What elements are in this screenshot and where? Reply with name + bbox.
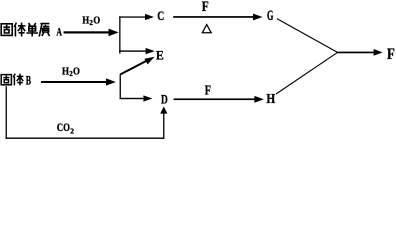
svg-text:O: O bbox=[73, 67, 80, 78]
wire H to junction (diagonal) bbox=[276, 52, 338, 94]
svg-text:G: G bbox=[267, 8, 274, 24]
svg-text:D: D bbox=[161, 92, 168, 107]
svg-text:2: 2 bbox=[70, 127, 74, 136]
text 固体B bbox=[1, 74, 23, 86]
wire to C bbox=[119, 14, 154, 20]
体 bbox=[13, 74, 23, 86]
wire diagonal to E bbox=[120, 57, 154, 75]
固 bbox=[1, 75, 11, 85]
wire A to branch (thick arrow) bbox=[64, 29, 119, 37]
wire branch-2 vertical (B split) bbox=[120, 74, 121, 99]
label delta (below C-G arrow) bbox=[202, 25, 211, 33]
wire CO2 loop left vertical bbox=[6, 86, 7, 139]
wire C to G (arrow) bbox=[173, 14, 262, 21]
体 bbox=[14, 23, 25, 37]
wire CO2 loop right vertical with up arrowhead bbox=[160, 106, 167, 138]
svg-text:A: A bbox=[56, 25, 62, 39]
svg-text:H: H bbox=[82, 16, 89, 27]
wire CO2 loop bottom horizontal bbox=[6, 138, 165, 139]
text 固体单质 (solid element label) bbox=[1, 23, 49, 37]
wire G to junction (diagonal) bbox=[277, 19, 338, 53]
svg-text:H: H bbox=[62, 67, 69, 78]
wire to E bbox=[119, 48, 155, 54]
svg-text:E: E bbox=[156, 47, 164, 62]
label H2O (middle) bbox=[62, 67, 80, 79]
wire D to H (arrow) bbox=[174, 96, 264, 103]
固 bbox=[1, 24, 12, 36]
wire to D bbox=[120, 95, 153, 101]
label H2O (top) bbox=[82, 16, 100, 28]
svg-text:CO: CO bbox=[57, 122, 70, 134]
svg-text:F: F bbox=[205, 83, 211, 98]
svg-text:C: C bbox=[157, 9, 164, 23]
label CO2 bbox=[57, 122, 74, 136]
svg-text:O: O bbox=[93, 16, 100, 27]
wire B to branch (thick arrow) bbox=[41, 78, 116, 85]
单 bbox=[26, 23, 38, 37]
svg-text:H: H bbox=[266, 92, 275, 107]
wire branch vertical (A split) bbox=[119, 16, 120, 53]
svg-text:F: F bbox=[202, 0, 209, 15]
质 bbox=[39, 24, 49, 37]
svg-text:B: B bbox=[26, 74, 32, 88]
wire junction to F (arrow) bbox=[338, 49, 383, 56]
svg-text:F: F bbox=[387, 46, 395, 63]
